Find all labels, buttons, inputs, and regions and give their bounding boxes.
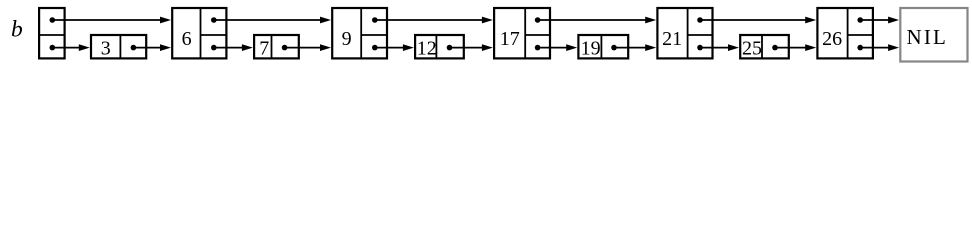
svg-text:25: 25	[742, 37, 762, 59]
svg-text:NIL: NIL	[907, 25, 949, 49]
svg-text:9: 9	[342, 28, 352, 50]
svg-text:19: 19	[581, 37, 601, 59]
svg-text:12: 12	[417, 37, 437, 59]
svg-text:b: b	[11, 17, 23, 43]
svg-text:17: 17	[500, 28, 520, 50]
svg-text:7: 7	[259, 37, 269, 59]
svg-text:3: 3	[101, 37, 111, 59]
svg-text:6: 6	[182, 28, 192, 50]
svg-text:26: 26	[822, 28, 842, 50]
svg-text:21: 21	[662, 28, 682, 50]
